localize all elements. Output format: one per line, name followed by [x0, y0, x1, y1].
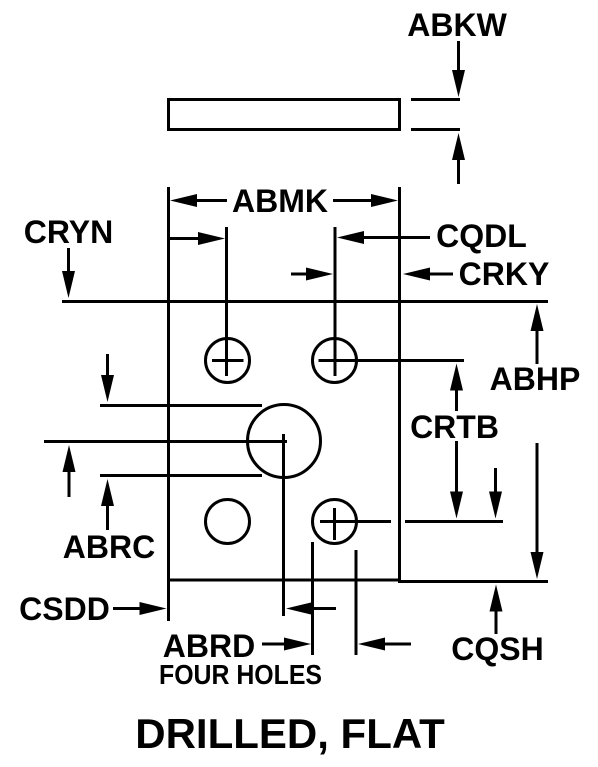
- CRTB dimension line lower shaft: [455, 441, 458, 492]
- ABKW upper extension line: [411, 98, 460, 101]
- arrowhead pointing right at top-right hole line: [306, 268, 333, 281]
- svg-text:FOUR HOLES: FOUR HOLES: [159, 659, 322, 690]
- top-left hole cross bar: [212, 359, 244, 362]
- CRYN up arrow shaft: [68, 471, 71, 497]
- arrow shaft pointing left at center hole line below plate: [311, 607, 336, 610]
- svg-text:ABHP: ABHP: [490, 361, 581, 397]
- plate outline: [169, 302, 400, 581]
- center hole vertical center line: [282, 434, 285, 616]
- side view plate (thin rectangle): [169, 100, 400, 130]
- plate top edge extension to the left: [62, 300, 170, 303]
- bottom-right hole: [313, 500, 357, 544]
- ABRC up arrow shaft: [106, 505, 109, 530]
- CQDL arrowhead pointing left: [337, 231, 364, 244]
- arrowhead pointing right at top-left hole line: [198, 232, 225, 245]
- extension line to top-left hole center: [225, 227, 228, 376]
- arrow shaft pointing right at top-right hole line: [291, 273, 307, 276]
- CRKY arrow shaft: [429, 273, 453, 276]
- center hole: [248, 405, 321, 478]
- bottom-right hole cross bar: [320, 520, 391, 523]
- ABRD right arrow shaft: [262, 643, 286, 646]
- svg-text:ABKW: ABKW: [407, 7, 507, 43]
- svg-text:CRYN: CRYN: [24, 214, 113, 250]
- center hole top tangent line: [100, 404, 262, 407]
- center hole bottom tangent line: [100, 474, 262, 477]
- down arrow shaft at bottom-right hole extension: [494, 468, 497, 492]
- plate top edge extension to the right: [398, 300, 548, 303]
- CQDL arrow shaft: [363, 236, 430, 239]
- CRYN down arrowhead: [62, 271, 75, 298]
- ABRC down arrow shaft: [106, 354, 109, 376]
- svg-text:CSDD: CSDD: [19, 591, 110, 627]
- ABMK right extension line: [398, 187, 401, 300]
- CRTB down arrowhead: [450, 492, 463, 519]
- ABMK right arrowhead: [371, 194, 398, 207]
- bottom-right hole right tangent line: [355, 550, 358, 655]
- ABRD left arrow shaft: [384, 643, 411, 646]
- CRYN down arrow shaft: [67, 248, 70, 272]
- bottom-right hole extension line to the right: [405, 520, 503, 523]
- ABRC up arrowhead: [101, 479, 114, 506]
- bottom-left hole: [206, 500, 250, 544]
- ABHP down arrowhead: [531, 552, 544, 579]
- CSDD arrowhead pointing right: [140, 602, 167, 615]
- ABMK left arrowhead: [170, 194, 197, 207]
- svg-text:CQSH: CQSH: [451, 631, 543, 667]
- ABMK dimension line right segment: [333, 199, 374, 202]
- svg-text:ABRC: ABRC: [63, 529, 155, 565]
- ABKW up arrow shaft: [457, 158, 460, 184]
- CRTB dimension line upper shaft: [455, 389, 458, 411]
- CQSH up arrow shaft: [495, 610, 498, 634]
- extension line to top-right hole center: [334, 227, 337, 376]
- CRTB up arrowhead: [450, 364, 463, 391]
- ABKW down arrow shaft: [457, 41, 460, 72]
- ABMK left extension line + plate left edge above: [167, 187, 170, 300]
- svg-text:DRILLED, FLAT: DRILLED, FLAT: [135, 710, 445, 757]
- ABMK dimension line left segment: [192, 199, 227, 202]
- CSDD arrow shaft: [113, 607, 141, 610]
- svg-text:CRTB: CRTB: [410, 409, 499, 445]
- svg-text:CQDL: CQDL: [436, 218, 527, 254]
- ABHP dimension line lower shaft: [536, 443, 539, 553]
- ABRD left arrowhead: [358, 638, 385, 651]
- top-left hole: [206, 339, 250, 383]
- svg-text:ABMK: ABMK: [232, 183, 328, 219]
- ABKW up arrowhead: [452, 133, 465, 160]
- plate left edge extension below plate: [167, 580, 170, 621]
- arrowhead pointing left at center hole line below plate: [286, 602, 313, 615]
- plate bottom edge extension to the right: [398, 580, 548, 583]
- ABRC down arrowhead: [101, 375, 114, 402]
- ABHP dimension line upper shaft: [536, 330, 539, 364]
- top-right hole: [313, 339, 357, 383]
- svg-text:CRKY: CRKY: [459, 256, 550, 292]
- bottom-right hole vertical cross bar: [333, 508, 336, 540]
- CRKY arrowhead pointing left: [403, 268, 430, 281]
- CQSH up arrowhead: [490, 585, 503, 612]
- ABRD right arrowhead: [284, 638, 311, 651]
- down arrowhead at bottom-right hole extension: [489, 492, 502, 519]
- CRYN up arrowhead: [63, 445, 76, 472]
- ABKW down arrowhead: [452, 70, 465, 97]
- center hole horizontal center line: [44, 440, 287, 443]
- arrow shaft pointing right at top-left hole line: [170, 237, 202, 240]
- bottom-right hole left tangent line: [311, 542, 314, 655]
- ABKW lower extension line: [411, 128, 460, 131]
- ABHP up arrowhead: [531, 304, 544, 331]
- top-right hole cross bar and extension to CRTB: [319, 359, 465, 362]
